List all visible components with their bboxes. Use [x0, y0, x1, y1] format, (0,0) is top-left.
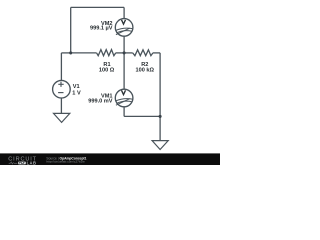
- svg-text:V1: V1: [73, 84, 80, 90]
- CircuitLab logo: [8, 157, 37, 166]
- wire VM1 bottom lead: [123, 107, 125, 117]
- ground (left, under V1): [54, 113, 70, 122]
- node B junction dot: [123, 51, 126, 54]
- wire right vertical down: [159, 53, 161, 141]
- node A junction dot: [69, 51, 72, 54]
- wire VM1 bottom horizontal to junction C: [124, 115, 160, 117]
- svg-text:100 kΩ: 100 kΩ: [136, 67, 155, 73]
- svg-text:999.1 µV: 999.1 µV: [90, 26, 113, 32]
- wire R1 right lead: [116, 52, 124, 54]
- resistor R1: [97, 50, 116, 56]
- wire V1 top vertical: [60, 53, 62, 81]
- wire VM2 bottom lead to junction B: [123, 36, 125, 53]
- svg-text:999.0 mV: 999.0 mV: [88, 98, 113, 104]
- svg-text:LAB: LAB: [27, 160, 37, 165]
- svg-text:http://circuitlab.com/c27b2w: http://circuitlab.com/c27b2w: [46, 160, 85, 164]
- svg-text:100 Ω: 100 Ω: [99, 67, 115, 73]
- ground (right): [152, 141, 168, 150]
- node C junction dot: [159, 115, 162, 118]
- wire R2 left lead: [124, 52, 133, 54]
- wire junction B down to VM1: [123, 53, 125, 89]
- wire junction A to R1: [71, 52, 97, 54]
- wire vertical up from junction A: [70, 7, 72, 53]
- wire left horizontal to junction A: [61, 52, 70, 54]
- wire top net: V1+ up and across to VM2: [61, 7, 160, 140]
- voltage source V1: [53, 80, 71, 98]
- wire R2 right lead to corner: [153, 52, 160, 54]
- footer bar: [0, 153, 220, 165]
- wire V1 bottom lead to ground: [60, 98, 62, 114]
- voltmeter VM2: [115, 19, 133, 37]
- svg-text:1 V: 1 V: [72, 90, 81, 96]
- wire VM2 top lead: [123, 7, 125, 18]
- wire top horizontal: [71, 6, 124, 8]
- resistor R2: [133, 50, 153, 56]
- footer source text: [46, 156, 86, 163]
- voltmeter VM1: [115, 89, 133, 107]
